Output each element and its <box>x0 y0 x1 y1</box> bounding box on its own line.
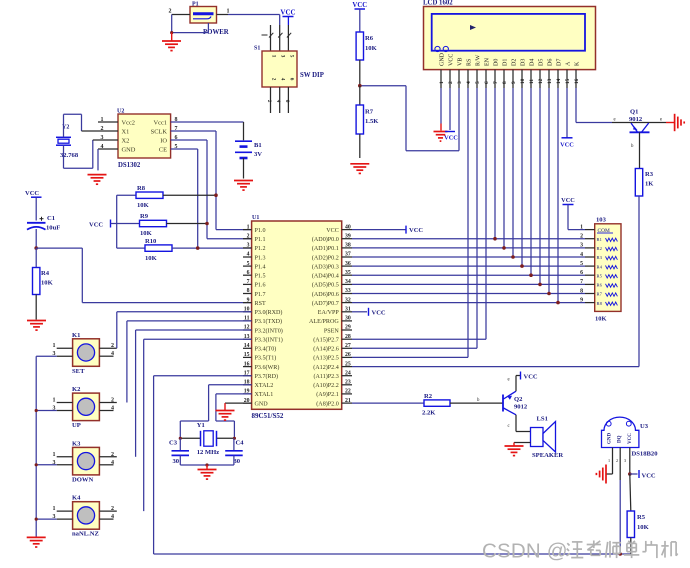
svg-text:D6: D6 <box>547 59 553 66</box>
svg-text:4: 4 <box>247 252 250 258</box>
svg-text:R9: R9 <box>140 213 149 220</box>
svg-text:VCC: VCC <box>560 142 574 149</box>
svg-text:DQ: DQ <box>618 435 623 443</box>
K3 pins <box>57 456 73 458</box>
svg-text:R10: R10 <box>145 238 157 245</box>
svg-text:naNL.NZ: naNL.NZ <box>72 531 100 538</box>
svg-text:K3: K3 <box>72 440 81 447</box>
svg-text:1: 1 <box>227 9 230 15</box>
junction D3 <box>520 264 524 268</box>
svg-text:1: 1 <box>53 343 56 349</box>
svg-text:Vcc1: Vcc1 <box>154 119 167 126</box>
U1 left pin 1 P1.0 <box>243 229 252 231</box>
U1 right pin 24 (A11)P2.3 <box>342 375 352 377</box>
svg-text:10K: 10K <box>140 230 153 237</box>
svg-text:R8: R8 <box>597 301 603 306</box>
svg-text:15: 15 <box>565 78 571 84</box>
U1 left pin 8 P1.7 <box>243 293 252 295</box>
battery B1 3V <box>235 140 252 142</box>
wire C1 to RST node <box>35 229 37 248</box>
svg-text:7: 7 <box>493 81 499 84</box>
RP1 pin 4 R3 <box>585 256 595 258</box>
svg-text:14: 14 <box>556 78 562 84</box>
U1 right pin 34 (AD5)P0.5 <box>342 283 352 285</box>
junction D1 <box>502 246 506 250</box>
RP1 pin 1 COM <box>585 229 595 231</box>
svg-text:10K: 10K <box>637 524 650 531</box>
svg-text:2: 2 <box>448 81 454 84</box>
svg-text:SCLK: SCLK <box>151 128 168 135</box>
wire rail to K2 <box>36 410 57 412</box>
svg-text:6: 6 <box>284 100 290 103</box>
svg-text:2: 2 <box>271 78 277 81</box>
junction RST node <box>34 246 38 250</box>
svg-text:8: 8 <box>580 288 583 294</box>
svg-text:16: 16 <box>244 361 250 367</box>
U1 right pin 28 (A15)P2.7 <box>342 338 352 340</box>
svg-text:(AD4)P0.4: (AD4)P0.4 <box>312 273 339 280</box>
resistor R7 1.5K <box>359 86 361 105</box>
svg-text:XTAL2: XTAL2 <box>255 383 274 389</box>
U1 right pin 21 (A8)P2.0 <box>342 402 352 404</box>
svg-text:38: 38 <box>345 243 351 249</box>
svg-text:7: 7 <box>580 279 583 285</box>
U1 left pin 13 P3.3(INT1) <box>243 338 252 340</box>
svg-text:U1: U1 <box>252 215 259 221</box>
svg-text:10K: 10K <box>137 202 150 209</box>
U1 right pin 39 (AD0)P0.0 <box>342 238 352 240</box>
LCD backlight holes <box>435 46 440 51</box>
svg-text:2: 2 <box>266 100 272 103</box>
svg-text:2: 2 <box>580 234 583 240</box>
svg-text:b: b <box>477 398 480 403</box>
wire U3 DQ down <box>619 480 621 554</box>
svg-text:D5: D5 <box>538 59 544 66</box>
svg-text:1: 1 <box>439 81 445 84</box>
wire rail to K1 <box>36 355 57 357</box>
svg-text:35: 35 <box>345 270 351 276</box>
svg-text:VCC: VCC <box>326 228 339 234</box>
transistor Q2 9012 <box>502 395 504 412</box>
svg-text:D0: D0 <box>493 59 499 66</box>
svg-text:VCC: VCC <box>25 190 39 197</box>
svg-text:1: 1 <box>53 398 56 404</box>
svg-text:5: 5 <box>580 261 583 267</box>
svg-text:25: 25 <box>345 361 351 367</box>
svg-text:P1.0: P1.0 <box>255 228 266 234</box>
svg-text:VCC: VCC <box>409 227 423 234</box>
svg-text:28: 28 <box>345 334 351 340</box>
U1 left pin 20 GND <box>243 402 252 404</box>
svg-text:(A13)P2.5: (A13)P2.5 <box>313 355 339 362</box>
wire Y2 bottom to U2 X2 <box>63 145 65 168</box>
svg-text:30: 30 <box>173 458 180 465</box>
svg-text:R7: R7 <box>365 109 374 116</box>
svg-text:R5: R5 <box>637 514 646 521</box>
svg-text:R/W: R/W <box>475 54 481 66</box>
svg-text:10K: 10K <box>365 45 378 52</box>
svg-text:P1.6: P1.6 <box>255 283 266 289</box>
resistor R2 2.2K <box>424 400 450 406</box>
svg-text:6: 6 <box>580 270 583 276</box>
U1 right pin 36 (AD3)P0.3 <box>342 265 352 267</box>
svg-text:P1.5: P1.5 <box>255 274 266 280</box>
svg-text:R8: R8 <box>137 185 146 192</box>
svg-text:RST: RST <box>255 301 266 307</box>
wire U2 IO to U1 P1.1 <box>171 139 207 141</box>
U1 left pin 9 RST <box>243 302 252 304</box>
K4 pins <box>57 510 73 512</box>
K1 pins <box>57 347 73 349</box>
svg-text:IO: IO <box>160 137 167 144</box>
svg-text:LS1: LS1 <box>537 416 548 423</box>
svg-text:12 MHz: 12 MHz <box>197 449 220 456</box>
svg-text:(A12)P2.4: (A12)P2.4 <box>313 364 339 371</box>
wire LCD VB to contrast divider <box>458 88 460 151</box>
svg-text:30: 30 <box>234 458 241 465</box>
svg-text:ALE/PROG: ALE/PROG <box>309 319 339 325</box>
U1 right pin 32 (AD7)P0.7 <box>342 302 352 304</box>
svg-text:11: 11 <box>529 79 535 84</box>
U3 pin stubs <box>612 448 614 475</box>
svg-text:R6: R6 <box>597 283 603 288</box>
svg-text:R6: R6 <box>365 35 374 42</box>
wire LCD GND to ground <box>440 88 442 124</box>
svg-text:VCC: VCC <box>561 197 575 204</box>
svg-text:A: A <box>565 61 571 66</box>
svg-text:3: 3 <box>580 243 583 249</box>
svg-text:VCC: VCC <box>642 473 656 480</box>
svg-text:39: 39 <box>345 233 351 239</box>
svg-text:e: e <box>614 118 616 123</box>
svg-text:5: 5 <box>247 261 250 267</box>
wire R2 to Q2 base <box>450 402 503 404</box>
ground (U2) <box>88 174 107 176</box>
wire RST node to U1 RST <box>36 247 82 249</box>
svg-text:9012: 9012 <box>514 404 528 411</box>
watermark glyph <box>628 541 630 543</box>
junction R10-CE-P1.2 <box>196 246 200 250</box>
svg-text:32: 32 <box>345 297 351 303</box>
svg-text:D3: D3 <box>520 59 526 66</box>
svg-text:4: 4 <box>111 351 114 357</box>
svg-text:31: 31 <box>345 307 351 313</box>
svg-text:CSDN @: CSDN @ <box>482 540 568 563</box>
wire P1 pin2 loop to ground <box>171 15 173 33</box>
svg-text:U3: U3 <box>640 423 649 430</box>
svg-text:9: 9 <box>580 297 583 303</box>
wire LCD D1 / P0.1 bus <box>503 88 505 248</box>
U1 right pin 30 ALE/PROG <box>342 320 352 322</box>
svg-text:SET: SET <box>72 368 85 375</box>
svg-text:9: 9 <box>247 297 250 303</box>
wire R3 to U1 P2.4 <box>638 196 640 367</box>
junction D0 <box>493 237 497 241</box>
junction R9-IO <box>205 222 209 226</box>
svg-text:GND: GND <box>608 433 613 445</box>
svg-text:(AD7)P0.7: (AD7)P0.7 <box>312 300 339 307</box>
svg-text:R5: R5 <box>597 273 603 278</box>
svg-text:16: 16 <box>574 78 580 84</box>
svg-text:C3: C3 <box>169 440 178 447</box>
U1 left pin 14 P3.4(T0) <box>243 347 252 349</box>
svg-text:DS18B20: DS18B20 <box>632 451 659 458</box>
svg-text:26: 26 <box>345 352 351 358</box>
svg-text:VCC: VCC <box>280 9 295 17</box>
svg-text:22: 22 <box>345 389 351 395</box>
svg-text:2.2K: 2.2K <box>422 410 436 417</box>
resistor R3 1K <box>635 169 642 197</box>
pull-up rail for R8 R9 R10 <box>116 195 118 248</box>
power flag VCC (U1 pin40) <box>352 229 406 231</box>
svg-text:8: 8 <box>247 288 250 294</box>
svg-text:D2: D2 <box>511 59 517 66</box>
svg-text:29: 29 <box>345 325 351 331</box>
wire speaker to ground <box>514 442 531 444</box>
wire LCD D0 / P0.0 bus <box>494 88 496 239</box>
svg-text:9: 9 <box>511 81 517 84</box>
junction Y1 left <box>179 437 182 440</box>
junction Y1 gnd <box>205 463 208 466</box>
junction D6 <box>547 292 551 296</box>
svg-text:(AD5)P0.5: (AD5)P0.5 <box>312 282 339 289</box>
svg-text:X2: X2 <box>122 137 130 144</box>
wire rail to K4 <box>36 518 57 520</box>
svg-text:K1: K1 <box>72 332 80 339</box>
U1 right pin 35 (AD4)P0.4 <box>342 274 352 276</box>
svg-text:P3.0(RXD): P3.0(RXD) <box>255 309 283 316</box>
RP1 pin 6 R5 <box>585 274 595 276</box>
svg-text:4: 4 <box>580 252 583 258</box>
svg-text:(A10)P2.2: (A10)P2.2 <box>313 382 339 389</box>
wire U2 GND pin4 <box>98 148 118 150</box>
U1 left pin 4 P1.3 <box>243 256 252 258</box>
svg-text:Vcc2: Vcc2 <box>122 119 135 126</box>
svg-text:34: 34 <box>345 279 351 285</box>
wire U1 XTAL1 to Y1 <box>216 393 252 395</box>
svg-text:5: 5 <box>288 55 294 58</box>
U1 right pin 27 (A14)P2.6 <box>342 347 352 349</box>
svg-text:C4: C4 <box>236 440 245 447</box>
svg-text:4: 4 <box>466 81 472 84</box>
wire R4 to ground <box>35 295 37 320</box>
svg-text:P1.3: P1.3 <box>255 255 266 261</box>
svg-text:P3.3(INT1): P3.3(INT1) <box>255 337 283 344</box>
wire Y2 top to U2 X1 <box>63 114 65 137</box>
watermark glyph <box>606 542 608 558</box>
svg-text:R4: R4 <box>41 270 50 277</box>
svg-text:3: 3 <box>280 55 286 58</box>
svg-text:S1: S1 <box>254 46 260 52</box>
resistor R4 10K <box>35 248 37 267</box>
watermark glyph <box>567 543 569 545</box>
svg-text:K: K <box>574 61 580 66</box>
RP1 pin 3 R2 <box>585 247 595 249</box>
ground (Y1) <box>206 465 208 470</box>
svg-text:P3.4(T0): P3.4(T0) <box>255 346 277 353</box>
svg-text:10K: 10K <box>41 280 54 287</box>
svg-text:103: 103 <box>596 217 607 224</box>
svg-text:RS: RS <box>466 59 472 66</box>
svg-text:2: 2 <box>111 452 114 458</box>
wire P1 pin1 to S1/VCC <box>228 14 280 16</box>
U1 left pin 11 P3.1(TXD) <box>243 320 252 322</box>
svg-text:37: 37 <box>345 252 351 258</box>
svg-text:(AD0)P0.0: (AD0)P0.0 <box>312 236 339 243</box>
power flag VCC (U3) <box>628 472 632 476</box>
U1 left pin 15 P3.5(T1) <box>243 356 252 358</box>
wire Y1 ground rail <box>180 464 234 466</box>
U1 right pin 33 (AD6)P0.6 <box>342 293 352 295</box>
svg-text:Q1: Q1 <box>630 109 638 116</box>
svg-text:R1: R1 <box>597 237 603 242</box>
wire LCD D6 / P0.6 bus <box>548 88 550 294</box>
wire LCD A to VCC flag <box>566 88 568 138</box>
svg-text:14: 14 <box>244 343 250 349</box>
ground (R4) <box>27 320 46 322</box>
svg-text:6: 6 <box>247 270 250 276</box>
junction R6-R7 <box>358 84 362 88</box>
svg-text:SW DIP: SW DIP <box>300 72 324 79</box>
U1 left pin 17 P3.7(RD) <box>243 375 252 377</box>
RP1 pin 9 R8 <box>585 302 595 304</box>
svg-text:6: 6 <box>484 81 490 84</box>
U1 right pin 26 (A13)P2.5 <box>342 356 352 358</box>
svg-text:C1: C1 <box>47 215 55 222</box>
U1 right pin 25 (A12)P2.4 <box>342 366 352 368</box>
svg-text:GND: GND <box>439 52 445 66</box>
svg-text:DOWN: DOWN <box>72 476 93 483</box>
LCD screen <box>432 14 585 51</box>
svg-text:1: 1 <box>53 452 56 458</box>
svg-text:Q2: Q2 <box>514 396 523 403</box>
U1 left pin 3 P1.2 <box>243 247 252 249</box>
svg-text:40: 40 <box>345 224 351 230</box>
svg-text:21: 21 <box>345 398 351 404</box>
watermark glyph <box>664 541 666 558</box>
svg-text:6: 6 <box>288 78 294 81</box>
svg-text:4: 4 <box>111 460 114 466</box>
svg-text:(AD2)P0.2: (AD2)P0.2 <box>312 254 339 261</box>
sensor U3 DS18B20 <box>602 417 639 447</box>
svg-text:(AD3)P0.3: (AD3)P0.3 <box>312 263 339 270</box>
svg-text:8: 8 <box>502 81 508 84</box>
svg-text:P3.6(WR): P3.6(WR) <box>255 364 280 371</box>
junction D7 <box>556 301 560 305</box>
wire LCD D3 / P0.3 bus <box>521 88 523 266</box>
ground (U1 GND pin) <box>225 402 252 404</box>
wire LCD K to Q1 <box>575 88 577 123</box>
svg-text:P3.1(TXD): P3.1(TXD) <box>255 318 283 325</box>
svg-text:1: 1 <box>608 458 610 463</box>
U1 right pin 38 (AD1)P0.1 <box>342 247 352 249</box>
resistor R5 10K pull-up <box>630 474 631 511</box>
wire K4 to U1 P3.3 <box>143 339 145 511</box>
power flag VCC (Q2 emitter) <box>515 376 517 392</box>
power flag VCC (LCD pin2) <box>449 88 451 130</box>
U1 left pin 19 XTAL1 <box>243 393 252 395</box>
svg-text:(A8)P2.0: (A8)P2.0 <box>316 400 339 407</box>
svg-text:D1: D1 <box>502 59 508 66</box>
watermark glyph <box>593 541 595 549</box>
svg-text:10: 10 <box>520 78 526 84</box>
wire K3 to U1 P3.2 <box>135 330 137 457</box>
svg-text:P1.7: P1.7 <box>255 292 266 298</box>
svg-text:(A11)P2.3: (A11)P2.3 <box>313 373 338 380</box>
svg-text:GND: GND <box>122 146 136 153</box>
svg-text:3V: 3V <box>254 151 262 158</box>
svg-text:(A15)P2.7: (A15)P2.7 <box>313 337 339 344</box>
svg-text:2: 2 <box>616 458 618 463</box>
U1 left pin 16 P3.6(WR) <box>243 366 252 368</box>
ground rail for buttons <box>35 356 37 537</box>
junction DQ-bus <box>618 552 622 556</box>
svg-text:3: 3 <box>247 243 250 249</box>
wire LCD RS to U1 P2.5 <box>467 88 469 357</box>
svg-text:P1.1: P1.1 <box>255 237 266 243</box>
svg-text:1K: 1K <box>645 181 654 188</box>
svg-text:10K: 10K <box>145 255 158 262</box>
RP1 pin 7 R6 <box>585 283 595 285</box>
wire U3 GND <box>606 473 613 475</box>
wire Q1 base to R3 <box>639 132 641 168</box>
svg-text:13: 13 <box>547 78 553 84</box>
svg-text:K2: K2 <box>72 386 81 393</box>
svg-text:R3: R3 <box>597 255 603 260</box>
wire K1 to U1 P3.0 <box>116 312 118 348</box>
U1 left pin 7 P1.6 <box>243 283 252 285</box>
U1 right pin 22 (A9)P2.1 <box>342 393 352 395</box>
wire U2 CE to U1 P1.2 <box>171 148 198 150</box>
junction P1-ground <box>170 31 173 34</box>
junction D5 <box>538 283 542 287</box>
svg-text:UP: UP <box>72 422 81 429</box>
svg-text:12: 12 <box>538 78 544 84</box>
svg-text:10uF: 10uF <box>46 225 60 232</box>
svg-text:Y1: Y1 <box>197 422 205 429</box>
ground (P1) <box>171 33 173 41</box>
capacitor C1 10uF <box>27 222 46 224</box>
svg-text:P1.2: P1.2 <box>255 246 266 252</box>
svg-text:3: 3 <box>624 458 626 463</box>
svg-text:DS1302: DS1302 <box>118 162 141 169</box>
ground (speaker) <box>505 445 524 447</box>
svg-text:24: 24 <box>345 370 351 376</box>
svg-text:CE: CE <box>159 146 167 153</box>
svg-text:4: 4 <box>280 78 286 81</box>
svg-text:P1: P1 <box>192 2 199 8</box>
U1 left pin 12 P3.2(INT0) <box>243 329 252 331</box>
svg-text:15: 15 <box>244 352 250 358</box>
svg-text:10K: 10K <box>595 316 607 323</box>
svg-text:R7: R7 <box>597 292 603 297</box>
svg-text:23: 23 <box>345 380 351 386</box>
svg-text:89C51/S52: 89C51/S52 <box>252 412 284 420</box>
svg-text:SPEAKER: SPEAKER <box>532 452 563 459</box>
U1 right pin 31 EA/VPP <box>342 311 352 313</box>
svg-text:X1: X1 <box>122 128 130 135</box>
svg-text:VCC: VCC <box>524 374 538 381</box>
svg-text:GND: GND <box>255 401 269 407</box>
svg-text:e: e <box>508 378 510 383</box>
U1 right pin 29 PSEN <box>342 329 352 331</box>
svg-text:VCC: VCC <box>352 2 367 9</box>
svg-text:2: 2 <box>111 398 114 404</box>
svg-text:2: 2 <box>169 9 172 15</box>
power flag VCC (U1 EA pin31) <box>352 311 367 313</box>
svg-text:P3.2(INT0): P3.2(INT0) <box>255 327 283 334</box>
svg-text:P3.7(RD): P3.7(RD) <box>255 373 279 380</box>
